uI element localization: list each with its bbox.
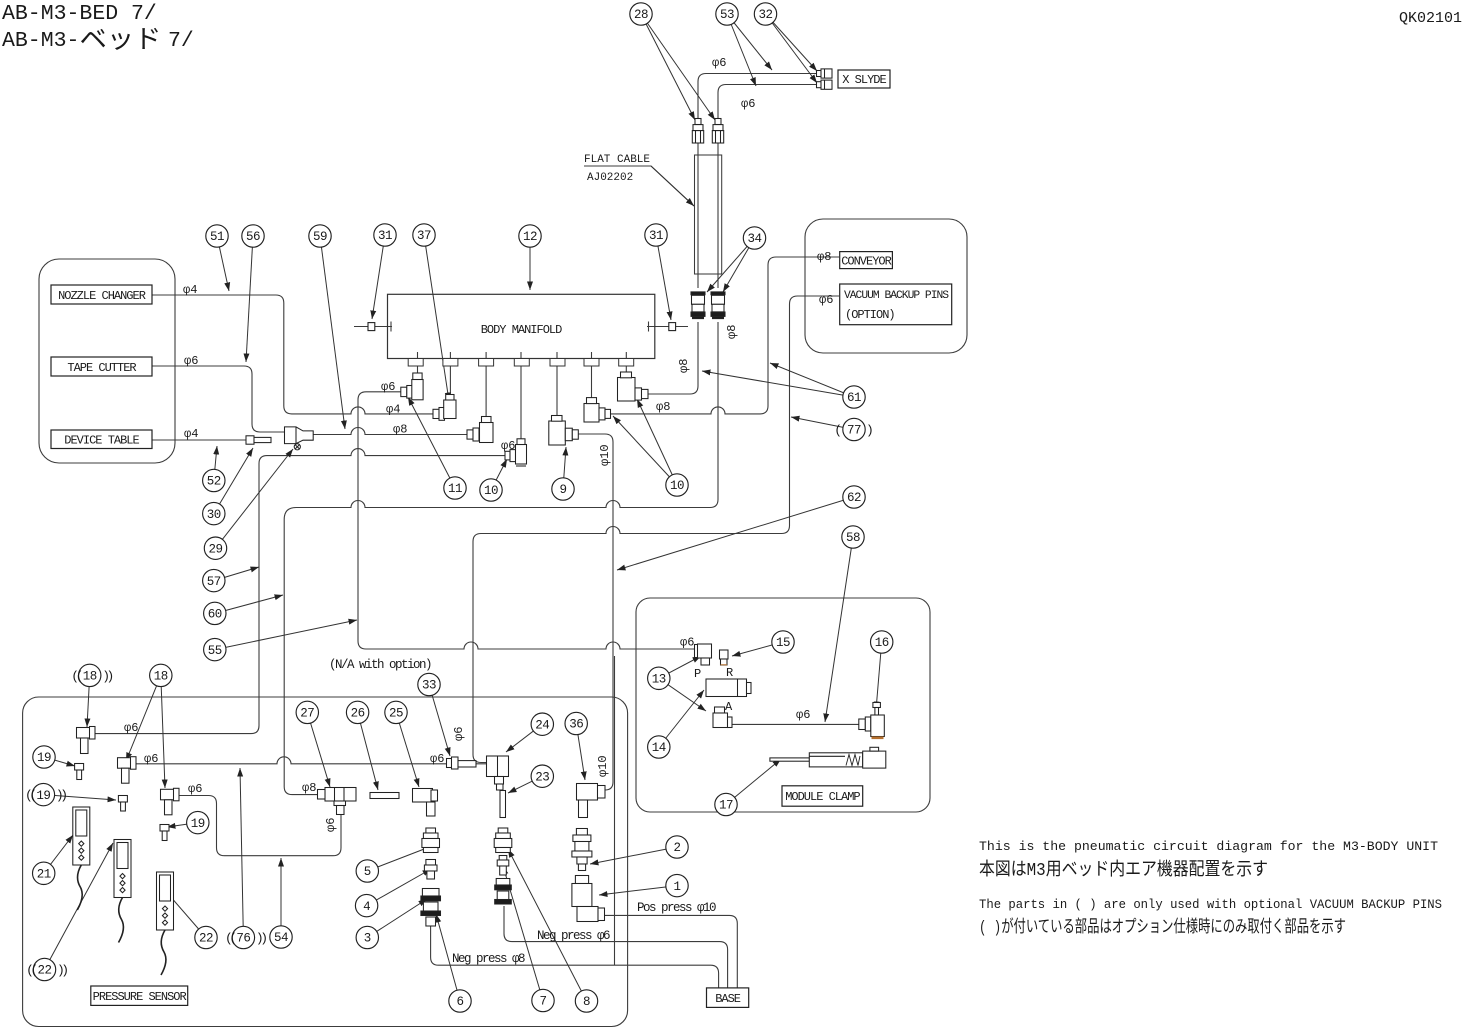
svg-text:( )が付いている部品はオプション仕様時にのみ取付く部品を示: ( )が付いている部品はオプション仕様時にのみ取付く部品を示す (979, 917, 1346, 938)
svg-text:ベッド: ベッド (80, 26, 162, 56)
svg-text:59: 59 (313, 230, 327, 244)
svg-text:52: 52 (207, 475, 221, 489)
wire port-E phi10 to elbow 36 (578, 434, 613, 790)
svg-text:1: 1 (673, 880, 680, 894)
svg-text:φ6: φ6 (741, 97, 755, 111)
manifold block 27 (318, 788, 357, 815)
balloon callout 4 (355, 894, 377, 916)
svg-text:56: 56 (246, 230, 260, 244)
box label MODULE CLAMP (782, 786, 863, 806)
svg-text:φ6: φ6 (184, 354, 198, 368)
wire line1 through flat cable (697, 143, 699, 288)
svg-text:φ10: φ10 (596, 755, 610, 777)
svg-text:φ8: φ8 (817, 250, 831, 264)
balloon callout 36 (565, 712, 587, 734)
svg-text:53: 53 (720, 8, 734, 22)
manifold port B elbow (11/37) (433, 395, 456, 421)
box label DEVICE TABLE (51, 430, 152, 449)
union fitting top of column (8) (494, 828, 512, 853)
leader line to (701,656) (659, 656, 701, 678)
svg-text:Neg press φ6: Neg press φ6 (537, 929, 610, 943)
balloon callout 8 (575, 990, 597, 1012)
leader line to (259,567) (214, 567, 259, 581)
FLAT CABLE duct (695, 155, 722, 274)
svg-text:28: 28 (634, 8, 648, 22)
valve body 13 (706, 679, 751, 697)
svg-text:7/: 7/ (168, 29, 194, 53)
device table plug fitting (52/30) (246, 436, 271, 444)
svg-text:60: 60 (208, 608, 222, 622)
svg-text:φ4: φ4 (386, 403, 400, 417)
svg-text:(OPTION): (OPTION) (845, 308, 895, 322)
module clamp enclosure (636, 598, 930, 812)
wire port-D phi6 to elbow 18 (94, 449, 505, 734)
small fitting 8 (497, 856, 509, 876)
manifold left end cap (368, 323, 375, 331)
svg-text:X SLYDE: X SLYDE (842, 73, 886, 87)
svg-text:33: 33 (422, 679, 436, 693)
leader line to (436,914) (436, 914, 460, 1001)
svg-text:55: 55 (208, 644, 222, 658)
balloon callout 32 (754, 3, 776, 25)
wire line2 neg-press phi8 to block 27 (284, 322, 718, 795)
svg-text:10: 10 (484, 484, 498, 498)
svg-text:φ6: φ6 (501, 439, 515, 453)
box label BASE (707, 988, 749, 1008)
svg-text:φ8: φ8 (393, 423, 407, 437)
manifold port F elbow (10) (584, 398, 611, 422)
svg-text:76: 76 (236, 932, 250, 946)
wire manifold port F pipe (591, 352, 593, 398)
box label CONVEYOR (840, 252, 893, 269)
leader line to (508,793) (508, 776, 542, 793)
wire manifold port D pipe (520, 352, 522, 439)
wire manifold port E pipe (556, 352, 558, 416)
valve13 R fitting (15) (720, 650, 729, 665)
balloon callout 60 (204, 602, 226, 624)
wire NOZZLE CHANGER phi4 to port-B (152, 295, 433, 414)
leader line to (293,449) (216, 449, 294, 548)
leader line to (113,843) (45, 843, 114, 970)
leader line to (756,86) (727, 14, 756, 86)
svg-text:A: A (725, 700, 733, 714)
leader line to (75,766) (44, 757, 75, 766)
svg-text:25: 25 (389, 707, 403, 721)
plug 19a (75, 764, 84, 780)
svg-text:CONVEYOR: CONVEYOR (841, 255, 891, 269)
svg-text:19: 19 (36, 789, 50, 803)
manifold port D elbow small (10) (505, 439, 527, 466)
balloon callout 19 (187, 811, 209, 833)
elbow 25 (413, 789, 438, 817)
svg-text:2: 2 (673, 841, 680, 855)
wire Neg press phi6 to BASE (504, 906, 728, 988)
balloon callout 23 (531, 765, 553, 787)
leader line to (817,83) (766, 14, 818, 83)
manifold port E elbow (9) (549, 416, 579, 446)
leader line to (702,371) (702, 371, 854, 397)
elbow 36 (577, 784, 606, 818)
wire line2 through flat cable (717, 143, 719, 288)
balloon callout 34 (743, 227, 765, 249)
leader line to (530,290) (529, 236, 531, 290)
balloon callout 7 (532, 989, 554, 1011)
svg-text:4: 4 (363, 900, 370, 914)
elbow 1 (572, 876, 605, 922)
svg-text:φ6: φ6 (819, 293, 833, 307)
balloon callout 13 (648, 667, 670, 689)
leader line to (817,71) (766, 14, 818, 71)
leader line to (637,399) (637, 399, 677, 485)
leader line to (73,835) (44, 835, 73, 873)
svg-text:54: 54 (274, 931, 288, 945)
leader line to (167,827) (167, 823, 198, 827)
balloon callout 18 (79, 664, 101, 686)
svg-text:3: 3 (364, 932, 371, 946)
leader line to (723,292) (723, 238, 755, 292)
balloon callout 27 (296, 701, 318, 723)
svg-text:18: 18 (154, 670, 168, 684)
leader line to (772,70) (727, 14, 772, 70)
balloon callout 25 (385, 701, 407, 723)
coupling 28 left (692, 119, 703, 144)
leader line to (508,849) (508, 849, 587, 1001)
leader line to (246,362) (246, 236, 253, 362)
balloon callout 1 (666, 874, 688, 896)
balloon callout 9 (552, 478, 574, 500)
balloon callout 10 (666, 474, 688, 496)
box label VACUUM BACKUP PINS (OPTION) (840, 284, 952, 325)
balloon callout 29 (204, 537, 226, 559)
BODY MANIFOLD block (388, 294, 655, 358)
balloon callout 56 (242, 225, 264, 247)
elbow 18a (77, 727, 96, 754)
device-group enclosure (39, 259, 175, 463)
svg-text:7: 7 (539, 995, 546, 1009)
svg-text:32: 32 (758, 8, 772, 22)
leader line to (357,620) (215, 620, 357, 650)
svg-text:51: 51 (210, 230, 224, 244)
svg-text:30: 30 (207, 508, 221, 522)
wire X-SLYDE line 2 upper (718, 85, 819, 120)
union 29 circle mark (294, 444, 300, 450)
leader line to (585,780) (576, 724, 585, 781)
svg-text:MODULE CLAMP: MODULE CLAMP (785, 790, 860, 804)
valve13 P elbow (695, 644, 712, 665)
leader line to (217,446) (214, 446, 217, 481)
balloon callout 24 (531, 713, 553, 735)
svg-text:φ10: φ10 (598, 444, 612, 466)
svg-text:PRESSURE SENSOR: PRESSURE SENSOR (93, 990, 187, 1004)
wire DEVICE TABLE phi4 (152, 439, 246, 441)
svg-text:VACUUM BACKUP PINS: VACUUM BACKUP PINS (844, 290, 949, 302)
coupling 28 right (712, 119, 723, 144)
leader line to (599,895) (599, 886, 677, 895)
leader line to (450,756) (429, 685, 450, 757)
wire manifold port C pipe (485, 352, 487, 417)
svg-text:The parts in ( ) are only used: The parts in ( ) are only used with opti… (979, 897, 1442, 912)
svg-text:19: 19 (191, 817, 205, 831)
svg-text:23: 23 (535, 770, 549, 784)
balloon callout 14 (648, 736, 670, 758)
leader line to (617,570) (617, 497, 854, 570)
svg-text:29: 29 (208, 542, 222, 556)
elbow 18c (161, 788, 180, 815)
wire connector33 to elbow24 (457, 763, 487, 765)
balloon callout 15 (772, 631, 794, 653)
box label X SLYDE (838, 70, 890, 88)
svg-text:Neg press φ8: Neg press φ8 (452, 952, 525, 966)
pressure sensor 22b (157, 872, 174, 975)
svg-text:φ8: φ8 (656, 400, 670, 414)
box label NOZZLE CHANGER (51, 285, 152, 304)
plug 19c (160, 825, 169, 841)
svg-text:φ6: φ6 (144, 752, 158, 766)
svg-text:11: 11 (448, 482, 462, 496)
fitting 4 (424, 860, 437, 880)
svg-text:(: ( (834, 423, 842, 438)
leader line to (345,429) (320, 236, 345, 429)
svg-text:36: 36 (569, 718, 583, 732)
leader line to (507,459) (491, 459, 507, 490)
leader line to (281,858) (280, 858, 282, 937)
svg-text:): ) (866, 423, 874, 438)
balloon callout 58 (842, 526, 864, 548)
muffler 7 (495, 879, 512, 905)
svg-text:37: 37 (417, 229, 431, 243)
box label TAPE CUTTER (51, 357, 152, 376)
svg-text:26: 26 (351, 707, 365, 721)
wire VACUUM phi6 to elbow 24 (473, 296, 839, 763)
leader line to (431,869) (367, 869, 431, 906)
svg-text:φ8: φ8 (677, 359, 691, 373)
leader line to (240,768) (240, 768, 243, 938)
balloon callout 28 (630, 3, 652, 25)
svg-text:16: 16 (875, 636, 889, 650)
coupling 34 left (691, 292, 705, 319)
svg-text:BASE: BASE (715, 992, 741, 1006)
svg-text:22: 22 (199, 932, 213, 946)
svg-text:15: 15 (776, 636, 790, 650)
leader line to (165,788) (161, 675, 165, 788)
balloon callout 59 (309, 225, 331, 247)
svg-text:31: 31 (649, 229, 663, 243)
svg-text:R: R (726, 666, 733, 680)
svg-text:12: 12 (523, 230, 537, 244)
svg-text:61: 61 (847, 391, 861, 405)
leader line to (372,319) (372, 235, 385, 319)
svg-text:P: P (694, 667, 701, 681)
svg-text:φ6: φ6 (381, 380, 395, 394)
svg-text:BODY MANIFOLD: BODY MANIFOLD (481, 323, 562, 337)
manifold left end tick (390, 322, 392, 332)
svg-text:17: 17 (719, 799, 733, 813)
balloon callout 55 (204, 638, 226, 660)
wire X-SLYDE line 1 upper (698, 74, 819, 120)
svg-text:φ6: φ6 (452, 727, 466, 741)
wire TAPE CUTTER phi6 to union 29 (152, 366, 284, 432)
leader line to (330,787) (307, 712, 330, 787)
leader line to (163,888) (163, 888, 206, 938)
svg-text:14: 14 (652, 741, 666, 755)
flow control valve 16 (859, 703, 885, 740)
svg-text:NOZZLE CHANGER: NOZZLE CHANGER (58, 289, 146, 303)
leader line to (503,866) (503, 866, 543, 1001)
leader line to (126,761) (126, 675, 161, 761)
svg-text:AB-M3-: AB-M3- (2, 29, 79, 53)
balloon callout 6 (449, 990, 471, 1012)
plate 26 (370, 793, 399, 799)
balloon callout 53 (716, 3, 738, 25)
filter 3 (421, 889, 441, 927)
balloon callout 22 (195, 926, 217, 948)
balloon callout 2 (666, 836, 688, 858)
leader line to (770,363) (770, 363, 854, 397)
balloon callout 5 (356, 860, 378, 882)
wire module clamp phi6 (732, 723, 859, 725)
leader line to (87,727) (87, 675, 90, 727)
svg-text:φ8: φ8 (725, 325, 739, 339)
svg-text:φ4: φ4 (183, 283, 197, 297)
svg-text:19: 19 (37, 751, 51, 765)
svg-text:φ8: φ8 (302, 781, 316, 795)
leader line to (707,292) (707, 238, 755, 292)
elbow 24 (487, 756, 509, 790)
manifold right end cap (669, 323, 676, 331)
svg-text:77: 77 (847, 424, 861, 438)
leader line to (706,711) (659, 678, 706, 711)
leader FLAT CABLE label (584, 166, 694, 206)
balloon callout 52 (203, 469, 225, 491)
svg-text:φ6: φ6 (324, 818, 338, 832)
leader line to (506,752) (506, 724, 542, 752)
cylinder 17 rod (770, 758, 810, 761)
svg-text:57: 57 (207, 575, 221, 589)
balloon callout 30 (203, 502, 225, 524)
wire phi6 to connector 33 (136, 757, 447, 764)
leader line to (590,864) (590, 847, 677, 864)
svg-text:φ6: φ6 (796, 708, 810, 722)
leader line to (876,710) (876, 642, 882, 710)
leader line to (419,787) (396, 712, 419, 787)
X SLYDE fitting lower (32) (817, 80, 833, 89)
wire manifold port G pipe (625, 352, 627, 372)
svg-text:This is the pneumatic circuit: This is the pneumatic circuit diagram fo… (979, 839, 1438, 854)
svg-text:13: 13 (652, 673, 666, 687)
svg-text:AJ02202: AJ02202 (587, 172, 633, 184)
leader line to (732,656) (732, 642, 783, 656)
svg-text:18: 18 (83, 670, 97, 684)
balloon callout 19 (32, 783, 54, 805)
balloon callout 3 (356, 926, 378, 948)
manifold port A elbow (56) (401, 373, 423, 400)
leader line to (715,120) (641, 14, 715, 120)
leader line to (695,120) (641, 14, 695, 120)
balloon callout 16 (871, 631, 893, 653)
balloon callout 54 (270, 926, 292, 948)
balloon callout 12 (519, 225, 541, 247)
svg-text:TAPE CUTTER: TAPE CUTTER (67, 361, 136, 375)
svg-text:8: 8 (583, 995, 590, 1009)
balloon callout 19 (33, 746, 55, 768)
balloon callout 22 (33, 958, 55, 980)
leader line to (229,291) (217, 236, 229, 291)
balloon callout 11 (444, 477, 466, 499)
svg-text:34: 34 (747, 232, 761, 246)
pressure sensor group enclosure (23, 697, 628, 1027)
leader line to (825,722) (825, 537, 853, 722)
balloon callout 26 (346, 701, 368, 723)
balloon callout 31 (645, 224, 667, 246)
conveyor group enclosure (805, 219, 967, 353)
wire elbow19 loop to block 27 (179, 796, 341, 856)
balloon callout 33 (418, 673, 440, 695)
svg-text:6: 6 (456, 995, 463, 1009)
leader line to (253,448) (214, 448, 253, 514)
wire manifold port A pipe (417, 352, 419, 373)
wire Pos press phi10 to BASE (604, 915, 737, 988)
balloon callout 21 (33, 862, 55, 884)
manifold port C elbow (10) (467, 417, 493, 443)
leader line to (791,417) (791, 417, 854, 430)
balloon callout 31 (374, 224, 396, 246)
svg-text:5: 5 (364, 865, 371, 879)
svg-text:φ6: φ6 (712, 56, 726, 70)
box label PRESSURE SENSOR (91, 986, 188, 1005)
svg-text:27: 27 (300, 707, 314, 721)
leader line to (613,416) (613, 416, 677, 485)
svg-text:φ6: φ6 (680, 636, 694, 650)
leader line to (704,690) (659, 690, 704, 747)
pressure sensor 21 (73, 807, 90, 910)
leader line to (283,595) (215, 595, 283, 613)
balloon callout 77 (843, 418, 865, 440)
svg-text:58: 58 (846, 531, 860, 545)
manifold port G elbow (10) (618, 372, 649, 401)
svg-text:φ6: φ6 (430, 752, 444, 766)
wire CONVEYOR phi8 to port-F (610, 257, 839, 414)
balloon callout 17 (715, 793, 737, 815)
balloon callout 10 (480, 479, 502, 501)
balloon callout 76 (232, 926, 254, 948)
wire Neg press phi8 to BASE (431, 926, 719, 988)
balloon callout 62 (843, 486, 865, 508)
leader line to (566,447) (563, 447, 566, 489)
svg-text:φ4: φ4 (184, 427, 198, 441)
svg-text:62: 62 (847, 491, 861, 505)
leader line to (116,800) (43, 795, 116, 800)
svg-text:φ6: φ6 (124, 721, 138, 735)
wire manifold port B pipe (449, 352, 451, 395)
svg-text:(N/A with option): (N/A with option) (329, 658, 431, 672)
union Y fitting (29) (285, 427, 314, 444)
svg-text:本図はM3用ベッド内エア機器配置を示す: 本図はM3用ベッド内エア機器配置を示す (979, 859, 1268, 881)
wire manifold right end line (647, 326, 688, 328)
wire union29 out phi8 to port-C (313, 428, 467, 435)
svg-text:QK02101: QK02101 (1399, 10, 1462, 27)
elbow 14 (A port) (713, 707, 732, 728)
leader line to (378,790) (358, 712, 378, 790)
balloon callout 57 (203, 569, 225, 591)
cylinder 17 end block (863, 747, 886, 768)
balloon callout 61 (843, 386, 865, 408)
balloon callout 37 (413, 224, 435, 246)
leader line to (432,846) (367, 846, 432, 871)
svg-text:9: 9 (559, 483, 566, 497)
balloon callout 51 (206, 225, 228, 247)
elbow 18b (118, 757, 137, 784)
manifold right end tick (648, 322, 650, 332)
